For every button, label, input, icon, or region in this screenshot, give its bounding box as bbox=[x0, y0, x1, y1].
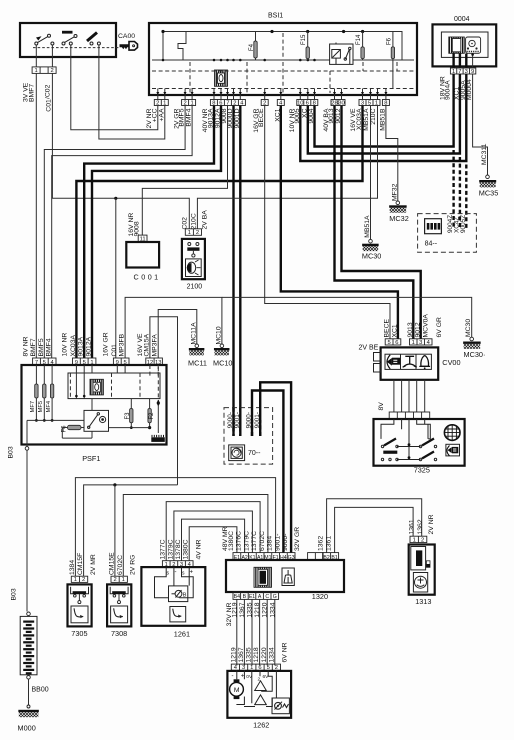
svg-text:1262: 1262 bbox=[253, 721, 269, 730]
wires 1377-1380 crossover bbox=[166, 502, 260, 561]
svg-text:BMF4: BMF4 bbox=[186, 108, 193, 126]
svg-text:1377C: 1377C bbox=[160, 539, 167, 559]
battery BB00 bbox=[20, 616, 37, 674]
svg-text:9012: 9012 bbox=[415, 322, 422, 337]
fuse F4 bbox=[255, 32, 257, 61]
ground MC30- bbox=[463, 342, 481, 344]
svg-text:+: + bbox=[241, 674, 245, 680]
svg-text:2: 2 bbox=[82, 577, 85, 583]
wire B03 bbox=[26, 450, 28, 611]
svg-text:1377C: 1377C bbox=[251, 531, 258, 551]
svg-text:1380C: 1380C bbox=[228, 531, 235, 551]
svg-text:XC1: XC1 bbox=[391, 324, 398, 337]
svg-text:3: 3 bbox=[361, 100, 364, 106]
svg-text:B4: B4 bbox=[234, 594, 240, 600]
svg-text:1362: 1362 bbox=[417, 519, 424, 534]
wire to MC30 right bbox=[222, 297, 472, 337]
wire C01/C02 bbox=[52, 57, 189, 228]
wires 1320 to 1262 bbox=[236, 599, 238, 665]
PSF1 inner connector box bbox=[68, 373, 160, 399]
svg-text:1378C: 1378C bbox=[175, 539, 182, 559]
svg-text:1380C: 1380C bbox=[183, 539, 190, 559]
svg-text:1320: 1320 bbox=[312, 592, 328, 601]
7325 headlight icon bbox=[446, 444, 460, 456]
svg-text:1379C: 1379C bbox=[167, 539, 174, 559]
svg-text:1: 1 bbox=[412, 340, 415, 346]
svg-text:MC311: MC311 bbox=[481, 143, 488, 165]
ground MC11 bbox=[189, 348, 205, 350]
svg-text:F14: F14 bbox=[356, 34, 362, 45]
svg-text:MCV0A: MCV0A bbox=[423, 314, 430, 338]
svg-text:2100: 2100 bbox=[187, 284, 203, 291]
svg-text:2V RG: 2V RG bbox=[130, 555, 137, 575]
svg-text:2V NR: 2V NR bbox=[428, 514, 435, 534]
svg-text:1: 1 bbox=[375, 100, 378, 106]
svg-text:BB00: BB00 bbox=[32, 687, 49, 694]
svg-text:0V: 0V bbox=[246, 674, 253, 680]
svg-text:16V GR: 16V GR bbox=[103, 332, 110, 356]
svg-text:CM15F: CM15F bbox=[77, 553, 84, 575]
wire XC03A bbox=[76, 106, 362, 359]
svg-text:7308: 7308 bbox=[111, 629, 127, 638]
svg-text:MF5: MF5 bbox=[38, 401, 44, 413]
CA00 contact 1 bbox=[35, 34, 54, 45]
wire BECE to CV00 bbox=[265, 106, 390, 339]
dashed wires to 84 box bbox=[452, 150, 454, 228]
wire XC1 link bbox=[308, 74, 460, 154]
fuse F14 bbox=[362, 32, 364, 61]
svg-text:+: + bbox=[190, 570, 194, 576]
svg-text:7: 7 bbox=[226, 100, 229, 106]
fan noise icon bbox=[272, 698, 289, 714]
svg-text:0004: 0004 bbox=[454, 16, 470, 23]
cluster gauge symbol bbox=[466, 37, 481, 53]
blower unit 1262 bbox=[231, 664, 280, 671]
svg-text:F15: F15 bbox=[301, 34, 307, 45]
svg-text:9005Z: 9005Z bbox=[460, 215, 467, 233]
svg-text:5: 5 bbox=[387, 340, 390, 346]
svg-text:1261: 1261 bbox=[174, 629, 190, 638]
svg-text:BMF4: BMF4 bbox=[46, 338, 53, 356]
PSF1 internal ground bbox=[151, 437, 165, 442]
svg-text:1: 1 bbox=[452, 69, 455, 75]
svg-text:1361: 1361 bbox=[326, 536, 333, 551]
wire XC1 to CV00 bbox=[281, 106, 398, 339]
wire 9012A bbox=[92, 106, 221, 359]
svg-text:CA00: CA00 bbox=[118, 33, 135, 40]
wire 6702C bbox=[123, 495, 268, 577]
svg-text:C001: C001 bbox=[134, 273, 161, 282]
wires CV00 to 7325 bbox=[393, 380, 395, 412]
svg-text:CM15A: CM15A bbox=[143, 333, 150, 356]
svg-text:1: 1 bbox=[188, 230, 191, 236]
svg-text:1379C: 1379C bbox=[243, 531, 250, 551]
wire 9013A bbox=[84, 106, 214, 359]
svg-text:1219: 1219 bbox=[230, 647, 237, 662]
svg-text:1: 1 bbox=[163, 100, 166, 106]
svg-text:BECE: BECE bbox=[258, 108, 265, 127]
svg-text:2: 2 bbox=[156, 100, 159, 106]
svg-text:1384: 1384 bbox=[267, 536, 274, 551]
PSF1 fuses MF7 MF5 MF4 bbox=[35, 365, 37, 384]
svg-text:C01: C01 bbox=[111, 344, 118, 357]
svg-text:2: 2 bbox=[113, 577, 116, 583]
svg-text:/C02: /C02 bbox=[45, 84, 52, 99]
wire CM15A bbox=[150, 317, 178, 485]
svg-text:3: 3 bbox=[419, 340, 422, 346]
svg-text:6V: 6V bbox=[263, 674, 270, 680]
svg-text:MF32: MF32 bbox=[391, 183, 398, 201]
wire BMF4 bbox=[52, 106, 192, 359]
svg-text:2: 2 bbox=[421, 537, 424, 543]
wire 210C bbox=[197, 106, 377, 229]
CA00 contact 3 bbox=[87, 33, 100, 46]
svg-text:MC10: MC10 bbox=[213, 359, 232, 368]
svg-text:MC10: MC10 bbox=[215, 326, 222, 344]
svg-text:-: - bbox=[175, 570, 177, 576]
1262 motor bbox=[234, 679, 240, 682]
svg-text:30: 30 bbox=[338, 100, 344, 106]
wire 9000D bbox=[232, 106, 234, 437]
svg-text:CM15E: CM15E bbox=[109, 552, 116, 575]
svg-text:7305: 7305 bbox=[71, 629, 87, 638]
svg-text:10V NR: 10V NR bbox=[62, 333, 69, 357]
svg-text:B03: B03 bbox=[8, 446, 15, 458]
CV00 horn icon bbox=[421, 356, 429, 367]
wire 9008 bbox=[142, 106, 227, 236]
ignition switch CA00 bbox=[20, 23, 116, 57]
interconnection 70 bbox=[224, 408, 273, 465]
svg-text:XC03A: XC03A bbox=[70, 334, 77, 356]
svg-text:84--: 84-- bbox=[425, 241, 438, 248]
svg-text:8V NR: 8V NR bbox=[23, 336, 30, 356]
svg-text:2: 2 bbox=[50, 68, 53, 74]
svg-text:2V BE: 2V BE bbox=[359, 345, 379, 352]
svg-text:6702C: 6702C bbox=[259, 531, 266, 551]
svg-text:7325: 7325 bbox=[414, 466, 430, 475]
CV00 wiper icon bbox=[405, 356, 414, 364]
svg-text:MC35: MC35 bbox=[479, 189, 498, 198]
ground M000 bbox=[18, 710, 38, 712]
svg-text:4V NR: 4V NR bbox=[196, 539, 203, 559]
wire 1384 bbox=[75, 478, 275, 577]
CA00 contact 2 bbox=[62, 31, 77, 45]
svg-text:MC30·: MC30· bbox=[464, 350, 486, 359]
BS11 dashed partition bbox=[152, 33, 414, 93]
PSF1 relay bbox=[84, 410, 109, 431]
svg-text:6: 6 bbox=[219, 100, 222, 106]
svg-text:2: 2 bbox=[183, 100, 186, 106]
70 icon bbox=[229, 445, 245, 461]
svg-text:F6: F6 bbox=[387, 37, 393, 45]
wire MP3FB to MC10 bbox=[125, 297, 222, 358]
ground MC10 bbox=[214, 348, 230, 350]
CV00 icon row bbox=[385, 354, 431, 369]
ground MC32 bbox=[389, 205, 407, 207]
svg-text:BECE: BECE bbox=[384, 319, 391, 338]
svg-text:6: 6 bbox=[306, 100, 309, 106]
wire 9012 to CV00 bbox=[342, 106, 421, 339]
connector 8V bbox=[389, 412, 430, 419]
svg-text:6702C: 6702C bbox=[117, 555, 124, 575]
svg-text:9013: 9013 bbox=[407, 322, 414, 337]
svg-text:8: 8 bbox=[212, 100, 215, 106]
svg-text:7: 7 bbox=[458, 69, 461, 75]
svg-text:MP3FB: MP3FB bbox=[119, 333, 126, 356]
svg-text:9001-: 9001- bbox=[274, 534, 281, 551]
svg-text:1384: 1384 bbox=[69, 560, 76, 575]
wire 9005A bbox=[300, 74, 466, 161]
BS11 step contact bbox=[178, 32, 186, 60]
svg-text:8: 8 bbox=[313, 100, 316, 106]
svg-text:2V BA: 2V BA bbox=[202, 210, 209, 230]
svg-text:8V: 8V bbox=[378, 402, 385, 411]
svg-text:6V NR: 6V NR bbox=[282, 642, 289, 662]
switch unit 7325 bbox=[374, 419, 465, 466]
svg-text:C: C bbox=[265, 594, 269, 600]
svg-text:B: B bbox=[243, 594, 247, 600]
svg-text:9008: 9008 bbox=[134, 221, 141, 236]
wire CM15E bbox=[114, 485, 116, 576]
svg-text:F2: F2 bbox=[149, 412, 155, 420]
svg-text:10: 10 bbox=[297, 100, 303, 106]
svg-text:+AA: +AA bbox=[158, 108, 165, 122]
wire BMF5 bbox=[44, 106, 185, 359]
CA00 link dashes bbox=[33, 47, 119, 49]
BS11 connector symbol bbox=[215, 70, 228, 86]
svg-text:BMF5: BMF5 bbox=[179, 108, 186, 126]
wires 9000- 9001- to 1320 bbox=[252, 391, 283, 553]
1262 internal wires bbox=[236, 670, 276, 706]
wire 9004A bbox=[315, 74, 454, 147]
wires 1362 1361 to 1313 bbox=[327, 499, 422, 553]
svg-text:MB51A: MB51A bbox=[363, 108, 370, 131]
svg-text:2: 2 bbox=[233, 100, 236, 106]
svg-text:1218: 1218 bbox=[253, 647, 260, 662]
wire C01 to PSF1 bbox=[115, 198, 117, 358]
svg-text:1367: 1367 bbox=[238, 647, 245, 662]
wire MB51A to MC30 bbox=[370, 106, 372, 240]
svg-text:C01: C01 bbox=[46, 99, 53, 112]
ECU IC bbox=[254, 567, 272, 587]
svg-text:PSF1: PSF1 bbox=[82, 454, 100, 463]
svg-text:MC11: MC11 bbox=[188, 359, 207, 368]
connector 3V VE bbox=[32, 67, 56, 74]
svg-text:B: B bbox=[183, 593, 187, 599]
svg-text:MC30: MC30 bbox=[362, 252, 381, 261]
svg-text:2: 2 bbox=[263, 100, 266, 106]
svg-text:1: 1 bbox=[190, 100, 193, 106]
svg-text:210C: 210C bbox=[370, 108, 377, 124]
svg-text:MC11A: MC11A bbox=[190, 322, 197, 345]
wire CM15 bbox=[84, 485, 178, 576]
svg-text:BMF7: BMF7 bbox=[30, 338, 37, 356]
svg-text:70--: 70-- bbox=[248, 450, 261, 457]
svg-text:6V GR: 6V GR bbox=[436, 317, 443, 337]
svg-text:9000-: 9000- bbox=[282, 534, 289, 551]
wire MB51B to MC32 bbox=[386, 106, 398, 202]
wire +AA bbox=[99, 57, 165, 139]
svg-text:6: 6 bbox=[395, 340, 398, 346]
svg-text:MP3FA: MP3FA bbox=[152, 334, 159, 357]
PSF1 supply bus bbox=[27, 419, 84, 421]
svg-text:1334: 1334 bbox=[268, 647, 275, 662]
svg-text:BMF7: BMF7 bbox=[28, 84, 35, 102]
fuse F6 bbox=[392, 32, 394, 89]
svg-text:MB51B: MB51B bbox=[379, 108, 386, 131]
fuse F15 bbox=[307, 32, 309, 61]
svg-text:-: - bbox=[232, 674, 234, 680]
PSF1 fuse F2 bbox=[148, 409, 151, 423]
CV00 headlight icon bbox=[387, 355, 390, 369]
svg-text:F4: F4 bbox=[249, 43, 255, 51]
svg-text:BSI1: BSI1 bbox=[268, 13, 283, 20]
svg-text:2: 2 bbox=[196, 230, 199, 236]
svg-text:1220: 1220 bbox=[261, 647, 268, 662]
svg-text:CV00: CV00 bbox=[442, 358, 460, 367]
key symbol CA00 bbox=[119, 44, 129, 49]
BS11 lower bus bbox=[152, 59, 414, 61]
svg-text:3: 3 bbox=[465, 69, 468, 75]
svg-text:28: 28 bbox=[331, 100, 337, 106]
svg-text:E1: E1 bbox=[249, 594, 255, 600]
svg-text:1361: 1361 bbox=[409, 519, 416, 534]
interconnection box 84 bbox=[418, 214, 477, 253]
node B03 bbox=[25, 447, 29, 451]
svg-text:1: 1 bbox=[413, 537, 416, 543]
svg-text:1335: 1335 bbox=[246, 647, 253, 662]
BS11 pin connectors bbox=[154, 100, 168, 107]
svg-text:C02: C02 bbox=[181, 217, 188, 230]
svg-text:1362: 1362 bbox=[318, 536, 325, 551]
7325 fan icon bbox=[444, 425, 460, 441]
svg-text:9012A: 9012A bbox=[86, 336, 93, 356]
svg-text:1: 1 bbox=[122, 577, 125, 583]
PSF1 fuse F6 bbox=[68, 425, 82, 429]
svg-text:B03: B03 bbox=[11, 588, 18, 600]
svg-text:A: A bbox=[258, 594, 262, 600]
wire 9013 to CV00 bbox=[335, 106, 414, 339]
svg-text:210C: 210C bbox=[190, 213, 197, 229]
svg-text:MF4: MF4 bbox=[46, 400, 52, 412]
svg-text:9: 9 bbox=[471, 69, 474, 75]
relay in BS11 bbox=[330, 43, 353, 65]
injector icon bbox=[282, 568, 294, 586]
svg-text:2V MR: 2V MR bbox=[90, 554, 97, 575]
ground MC35 bbox=[479, 180, 496, 182]
svg-text:1313: 1313 bbox=[415, 597, 431, 606]
svg-text:9013A: 9013A bbox=[78, 336, 85, 356]
wire BMF7 bbox=[35, 57, 37, 358]
svg-text:1376C: 1376C bbox=[236, 531, 243, 551]
wire MP3FA to MC11 bbox=[158, 310, 197, 359]
svg-text:M: M bbox=[234, 687, 240, 694]
svg-text:G: G bbox=[273, 594, 277, 600]
wire 9001D bbox=[239, 106, 241, 437]
wire M0004 to ground bbox=[473, 74, 488, 175]
BS11 internal bus bbox=[163, 32, 402, 61]
svg-text:MB51A: MB51A bbox=[364, 215, 371, 238]
svg-text:M000: M000 bbox=[18, 724, 36, 733]
svg-text:1: 1 bbox=[34, 68, 37, 74]
PSF1 fuse F3 bbox=[130, 409, 133, 423]
svg-text:MC32: MC32 bbox=[389, 214, 408, 223]
MAF symbol bbox=[169, 586, 188, 602]
svg-text:+CC: +CC bbox=[151, 108, 158, 122]
wire +CC bbox=[71, 57, 158, 129]
svg-text:MC30: MC30 bbox=[465, 319, 472, 337]
cluster IC symbol bbox=[449, 37, 465, 53]
svg-text:MF7: MF7 bbox=[30, 401, 36, 413]
svg-text:9004A: 9004A bbox=[445, 80, 452, 100]
ground MC30 bbox=[362, 244, 379, 246]
7325 switch contacts bbox=[384, 439, 434, 459]
amplifier triangles bbox=[255, 681, 267, 691]
svg-text:BMF5: BMF5 bbox=[38, 338, 45, 356]
svg-text:5: 5 bbox=[368, 100, 371, 106]
svg-text:8: 8 bbox=[384, 100, 387, 106]
svg-text:F3: F3 bbox=[125, 412, 131, 420]
svg-text:32V GR: 32V GR bbox=[294, 527, 301, 551]
svg-text:1: 1 bbox=[74, 577, 77, 583]
